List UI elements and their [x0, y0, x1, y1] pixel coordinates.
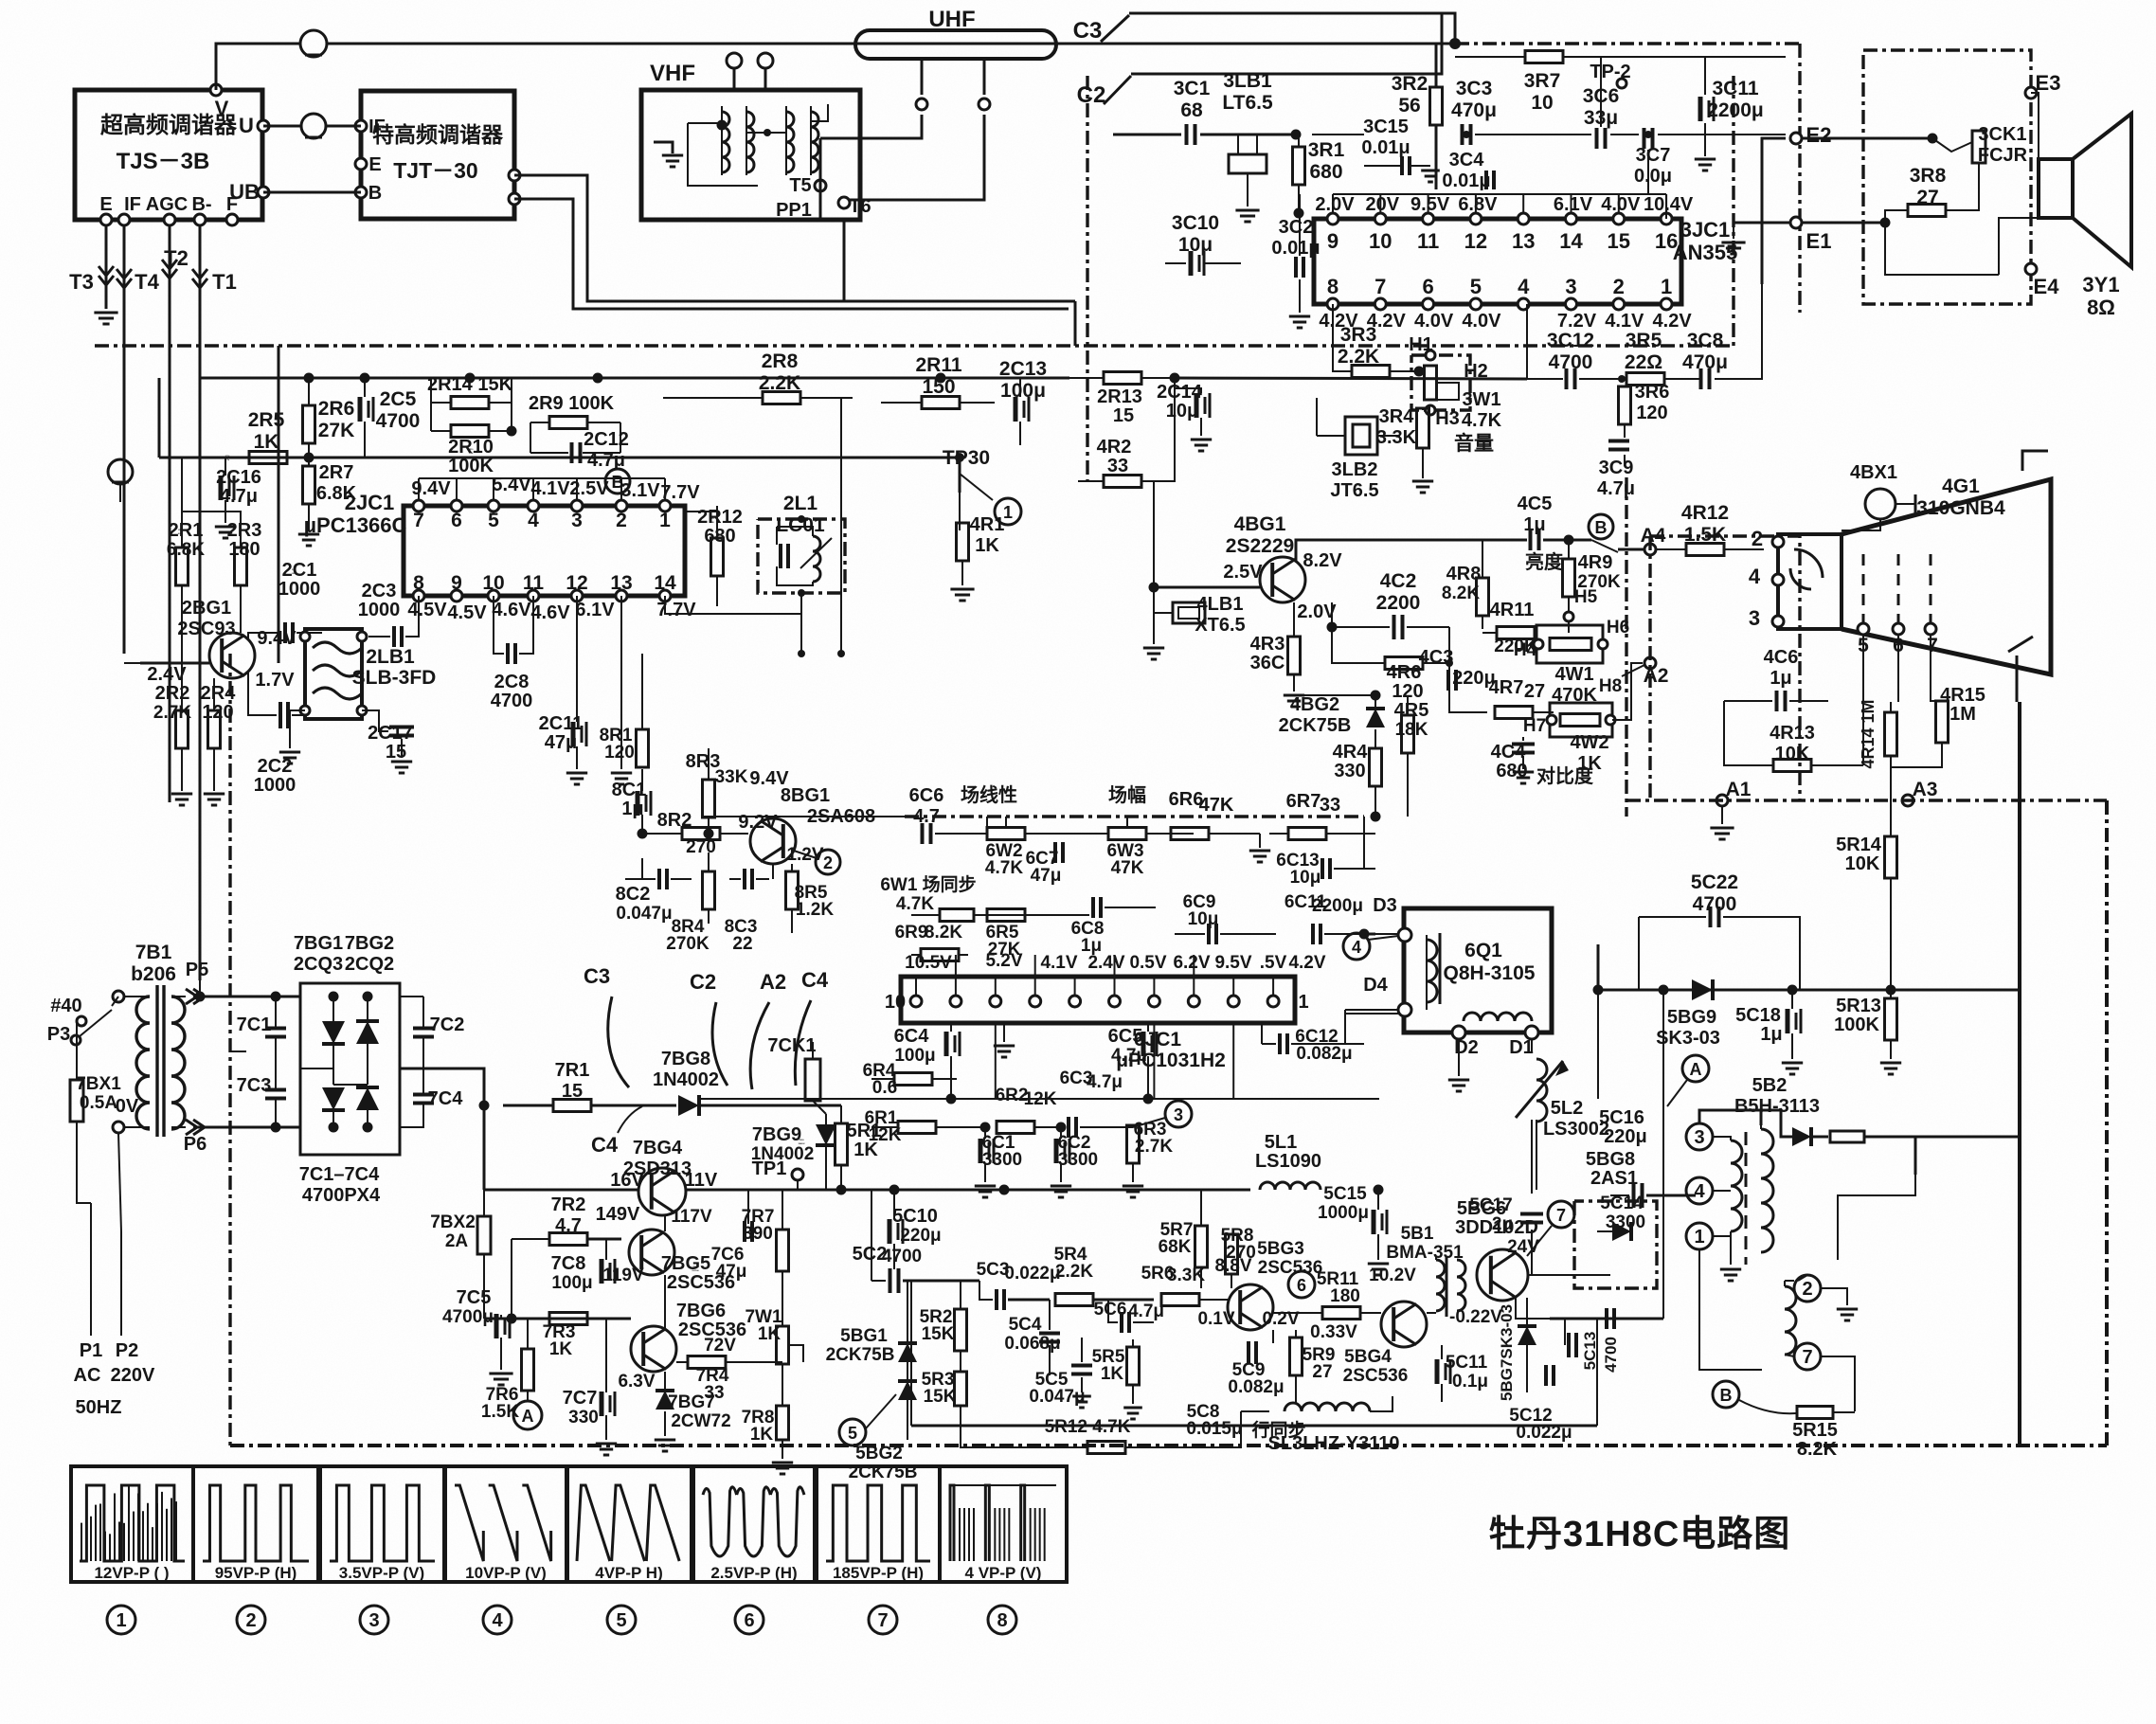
svg-text:2.5V: 2.5V [1223, 562, 1263, 583]
svg-text:5C11: 5C11 [1446, 1353, 1488, 1373]
svg-text:4R6: 4R6 [1387, 662, 1422, 683]
svg-text:3C15: 3C15 [1363, 117, 1409, 137]
svg-text:4700: 4700 [491, 691, 533, 711]
svg-text:6: 6 [1422, 275, 1433, 298]
svg-text:4: 4 [1694, 1181, 1705, 1202]
svg-text:2C3: 2C3 [362, 581, 397, 602]
resistor 6R6 [1171, 828, 1209, 840]
svg-text:3Y1: 3Y1 [2082, 273, 2119, 296]
resistor 4R6 [1385, 657, 1423, 670]
fuse 7BX1 [70, 1080, 83, 1122]
capacitor 5C6 [1120, 1312, 1123, 1333]
svg-text:2L1: 2L1 [783, 493, 818, 514]
svg-text:3C8: 3C8 [1687, 330, 1724, 351]
svg-text:5BG1: 5BG1 [840, 1326, 888, 1346]
node E2 [1790, 133, 1802, 144]
svg-text:特高频调谐器: 特高频调谐器 [372, 122, 504, 147]
resistor 2R3 [235, 548, 247, 585]
boundary dash main horizontal y365 [95, 344, 1734, 347]
svg-text:V: V [215, 97, 229, 120]
svg-text:2C14: 2C14 [1157, 382, 1203, 403]
svg-text:D3: D3 [1373, 895, 1397, 916]
capacitor 3C10 [1189, 251, 1194, 276]
svg-text:8.2K: 8.2K [925, 923, 962, 943]
svg-text:1K: 1K [750, 1425, 774, 1445]
capacitor 5C10 [888, 1219, 892, 1244]
svg-text:4.7μ: 4.7μ [1597, 478, 1635, 499]
svg-text:2: 2 [1802, 1279, 1812, 1300]
crystal 3LB2 [1345, 417, 1377, 455]
svg-text:D1: D1 [1509, 1037, 1534, 1058]
resistor 5R12 [1087, 1442, 1125, 1454]
terminal A1 [1716, 795, 1728, 806]
svg-text:1000: 1000 [254, 775, 296, 796]
VHF transformer coil 2 [786, 112, 794, 172]
svg-text:4LB1: 4LB1 [1197, 594, 1244, 615]
svg-text:7C2: 7C2 [430, 1015, 465, 1035]
fuse 7BX2 [477, 1216, 491, 1254]
pin 2 of 3JC1 bottom [1613, 298, 1625, 310]
svg-text:330: 330 [1334, 761, 1365, 781]
svg-text:1N4002: 1N4002 [653, 1069, 719, 1090]
svg-text:2C17: 2C17 [368, 723, 413, 744]
waveform box 3 3.5VP-P [320, 1466, 444, 1582]
circle node B [1713, 1381, 1739, 1408]
svg-text:2C1: 2C1 [282, 560, 317, 581]
resistor 7R1 [553, 1100, 591, 1112]
svg-text:0.068μ: 0.068μ [1004, 1334, 1060, 1354]
svg-text:4C3: 4C3 [1419, 647, 1454, 668]
capacitor 2C17 [389, 726, 414, 729]
svg-text:2CK75B: 2CK75B [826, 1345, 895, 1365]
capacitor 3C11 [1698, 97, 1703, 121]
waveform number 5 [607, 1606, 636, 1634]
svg-text:15: 15 [386, 742, 406, 763]
capacitor 5C22 [1709, 907, 1713, 927]
capacitor 6C11 [1311, 924, 1315, 944]
VHF transformer coil 1 [722, 112, 729, 172]
capacitor 2C12 [570, 442, 574, 463]
svg-text:5R15: 5R15 [1792, 1420, 1838, 1441]
svg-text:b206: b206 [131, 963, 176, 985]
svg-text:2.5V: 2.5V [569, 478, 609, 499]
svg-text:14: 14 [1559, 229, 1583, 253]
svg-text:47μ: 47μ [1031, 866, 1062, 886]
svg-text:27K: 27K [318, 420, 355, 441]
speaker 3Y1 [2039, 159, 2073, 218]
transformer 6Q1 Q8H-3105 [1404, 908, 1552, 1033]
svg-text:6.8V: 6.8V [1458, 194, 1498, 215]
capacitor 6C2 [1054, 1139, 1059, 1163]
svg-text:27: 27 [1312, 1362, 1332, 1382]
pin 14 of 3JC1 [1566, 213, 1577, 224]
svg-text:4.2V: 4.2V [1288, 953, 1325, 973]
capacitor 4C5 [1529, 530, 1533, 550]
pin 16 of 3JC1 [1661, 213, 1672, 224]
boundary dash vertical x243 [228, 654, 231, 1446]
svg-text:0V: 0V [116, 1096, 139, 1117]
pin 8 of 2JC1 bottom [413, 590, 424, 602]
resistor 2R4 [208, 710, 221, 748]
svg-text:3JC1: 3JC1 [1680, 218, 1731, 242]
svg-text:5C6: 5C6 [1094, 1300, 1127, 1320]
svg-text:5: 5 [488, 510, 499, 531]
svg-text:3C9: 3C9 [1599, 458, 1634, 478]
wire 3JC1 pin16 to E [1665, 194, 1667, 219]
resistor 2R5 [249, 452, 287, 464]
svg-text:2200μ: 2200μ [1312, 896, 1363, 916]
svg-text:100μ: 100μ [551, 1273, 592, 1293]
CRT socket pins 5 6 7 [1858, 623, 1869, 635]
pin AGC [164, 214, 175, 225]
resistor 7R4 [688, 1356, 726, 1369]
svg-text:10.5V: 10.5V [905, 953, 952, 973]
resistor 6R5 [987, 909, 1025, 922]
svg-text:8.2K: 8.2K [1797, 1439, 1838, 1460]
svg-text:2C13: 2C13 [999, 358, 1047, 380]
svg-text:AN355: AN355 [1673, 241, 1737, 264]
svg-text:4R12: 4R12 [1681, 502, 1729, 524]
resistor 3R7 [1525, 51, 1563, 63]
svg-text:0.082μ: 0.082μ [1296, 1044, 1352, 1064]
svg-text:4R5: 4R5 [1394, 700, 1429, 721]
terminal TJT-30 out2 [509, 193, 520, 205]
svg-text:470μ: 470μ [1682, 351, 1728, 373]
coil 5L2 [1536, 1059, 1547, 1122]
pin B- [194, 214, 206, 225]
svg-text:E2: E2 [1806, 123, 1832, 147]
capacitor 6C5 [1141, 1032, 1146, 1056]
capacitor 2C13 [1014, 397, 1018, 422]
capacitor 3C4 [1484, 171, 1488, 189]
terminal A4 [1644, 544, 1656, 555]
svg-text:BMA-351: BMA-351 [1386, 1243, 1464, 1263]
svg-text:11V: 11V [685, 1170, 718, 1191]
svg-text:1.7V: 1.7V [255, 670, 295, 691]
6JC1 pin stubs [915, 977, 917, 996]
pin 9 of 3JC1 [1327, 213, 1339, 224]
svg-text:4.6V: 4.6V [530, 602, 570, 623]
svg-text:PP1: PP1 [776, 200, 812, 221]
svg-text:B: B [1595, 518, 1608, 537]
wire 4BG1 collector [1296, 540, 1527, 561]
svg-text:1K: 1K [975, 535, 999, 556]
svg-text:JT6.5: JT6.5 [1330, 480, 1378, 501]
svg-text:330: 330 [568, 1408, 599, 1428]
svg-text:180: 180 [1330, 1286, 1360, 1306]
ground D2 [1458, 1039, 1460, 1076]
resistor 7R2 [549, 1233, 587, 1246]
resistor 4R2 [1104, 476, 1141, 488]
svg-text:5B1: 5B1 [1401, 1224, 1434, 1244]
svg-text:4: 4 [1518, 275, 1530, 298]
svg-text:8: 8 [1327, 275, 1339, 298]
capacitor 3C3 [1461, 124, 1464, 145]
svg-text:4.7: 4.7 [555, 1215, 582, 1236]
svg-text:1μ: 1μ [621, 799, 643, 819]
svg-text:2: 2 [1752, 527, 1763, 550]
capacitor 7C5 [494, 1314, 499, 1338]
svg-text:2.4V: 2.4V [147, 664, 187, 685]
pin 6 of 3JC1 bottom [1423, 298, 1434, 310]
pin 2 of 2JC1 [616, 500, 627, 512]
svg-text:2SC536: 2SC536 [1343, 1366, 1409, 1386]
capacitor 4C6 [1775, 691, 1779, 711]
svg-text:7B1: 7B1 [135, 942, 172, 963]
svg-text:5: 5 [616, 1610, 626, 1631]
CRT anode mark [2022, 451, 2048, 471]
waveform box 7 185VP-P [817, 1466, 940, 1582]
svg-text:3300: 3300 [982, 1150, 1022, 1170]
svg-text:120: 120 [1636, 403, 1667, 423]
svg-text:20V: 20V [1366, 194, 1400, 215]
svg-text:22Ω: 22Ω [1625, 351, 1662, 373]
svg-text:2AS1: 2AS1 [1590, 1168, 1638, 1189]
resistor 3R6 [1619, 386, 1631, 424]
wire E2 to box [1802, 137, 1932, 140]
svg-text:0.047μ: 0.047μ [616, 904, 672, 924]
wire IF down [123, 225, 126, 654]
terminal A2 [1644, 657, 1656, 669]
svg-text:3: 3 [571, 510, 583, 531]
waveform number 7 [869, 1606, 897, 1634]
svg-text:4700: 4700 [1693, 893, 1737, 915]
svg-text:AC: AC [74, 1365, 101, 1386]
svg-text:7C7: 7C7 [563, 1388, 598, 1409]
svg-text:3C1: 3C1 [1174, 78, 1211, 99]
pin 8 of 3JC1 bottom [1327, 298, 1339, 310]
pot 3W1 volume [1411, 355, 1470, 410]
dash box 5BG8 [1574, 1201, 1657, 1288]
pin U [258, 120, 269, 132]
svg-text:3R8: 3R8 [1910, 165, 1947, 187]
svg-text:4700: 4700 [376, 410, 421, 432]
svg-text:8C1: 8C1 [612, 780, 647, 800]
svg-text:U: U [239, 114, 254, 137]
antenna arrow T3 [99, 266, 114, 276]
main B+ rail [484, 1189, 638, 1192]
pin 1 of 2JC1 [659, 500, 671, 512]
resistor 7R6 [522, 1349, 534, 1391]
svg-text:1.5K: 1.5K [1684, 524, 1726, 546]
boundary dash top right [1455, 42, 1800, 45]
svg-text:47K: 47K [1199, 795, 1234, 816]
block VHF tuner box [641, 90, 860, 220]
pin V [210, 84, 222, 96]
svg-text:LS1090: LS1090 [1255, 1151, 1321, 1172]
svg-text:0.1μ: 0.1μ [1452, 1372, 1488, 1392]
wire U-B link [263, 191, 361, 194]
svg-text:100K: 100K [1834, 1015, 1879, 1035]
capacitor 5C16 [1632, 1183, 1636, 1208]
flyback pin 2 [1794, 1275, 1821, 1302]
pin B of TJT-30 [355, 187, 367, 198]
svg-text:1: 1 [116, 1610, 126, 1631]
svg-text:3R1: 3R1 [1308, 139, 1345, 161]
svg-text:0.01μ: 0.01μ [1271, 238, 1320, 259]
svg-text:SLB-3FD: SLB-3FD [352, 667, 437, 689]
svg-text:1.2K: 1.2K [796, 900, 834, 920]
circle node A2top [1682, 1055, 1709, 1082]
svg-text:3LB2: 3LB2 [1332, 459, 1378, 480]
terminal TJT-30 out1 [509, 170, 520, 181]
svg-text:2JC1: 2JC1 [345, 491, 395, 514]
svg-text:15K: 15K [924, 1387, 957, 1407]
node E4 [2025, 263, 2037, 275]
wire 5BG6 emitter [1516, 1298, 1550, 1319]
svg-text:6Q1: 6Q1 [1464, 940, 1502, 961]
svg-text:14: 14 [654, 572, 676, 594]
svg-text:10: 10 [885, 992, 906, 1013]
pin F [226, 214, 238, 225]
resistor 5R3 [955, 1372, 967, 1406]
circle node A [513, 1401, 542, 1429]
circle B node 4 [1589, 514, 1613, 539]
svg-text:4R1: 4R1 [970, 514, 1005, 535]
pin 7 of 2JC1 [413, 500, 424, 512]
resistor 2R12 [711, 538, 724, 576]
svg-text:6: 6 [451, 510, 462, 531]
transformer 7B1 secondary [171, 997, 185, 1129]
svg-text:F: F [226, 194, 238, 215]
svg-text:4.5V: 4.5V [407, 600, 447, 620]
svg-text:0.0μ: 0.0μ [1634, 166, 1672, 187]
filter 2LB1 SLB-3FD [305, 629, 362, 719]
svg-text:3C3: 3C3 [1456, 78, 1493, 99]
circle node 5 [839, 1419, 866, 1446]
capacitor 4C3 [1446, 670, 1450, 691]
wire y1392 [484, 1318, 631, 1320]
svg-text:IF: IF [124, 194, 141, 215]
svg-text:5: 5 [848, 1424, 857, 1443]
svg-text:7BG6: 7BG6 [676, 1301, 726, 1321]
capacitor 8C2 [657, 869, 661, 889]
svg-text:TJT－30: TJT－30 [393, 158, 477, 183]
svg-text:4: 4 [1352, 938, 1361, 957]
svg-text:220V: 220V [111, 1365, 155, 1386]
svg-text:P3: P3 [47, 1024, 70, 1045]
wire x1756 down [1662, 990, 1664, 1194]
svg-text:5C14: 5C14 [1600, 1194, 1644, 1213]
wire 5BG4 to 5B1 [1427, 1312, 1436, 1314]
svg-text:场线性: 场线性 [961, 783, 1017, 806]
block tuner TJS-3B [75, 90, 262, 220]
waveform number 2 [237, 1606, 265, 1634]
svg-text:2200μ: 2200μ [1707, 99, 1764, 121]
svg-text:B: B [1720, 1386, 1733, 1405]
svg-text:C3: C3 [584, 964, 610, 988]
pin 3 of 2JC1 [571, 500, 583, 512]
svg-text:2C5: 2C5 [380, 388, 417, 410]
svg-text:H8: H8 [1599, 676, 1622, 696]
resistor 4R14 [1885, 712, 1897, 756]
svg-text:2: 2 [823, 853, 833, 872]
svg-text:2.0V: 2.0V [1297, 602, 1337, 622]
capacitor 7C4 [413, 1093, 434, 1097]
svg-text:4.0V: 4.0V [1601, 194, 1641, 215]
svg-text:C4: C4 [801, 968, 829, 992]
capacitor 5C14 [1605, 1308, 1608, 1329]
svg-text:220μ: 220μ [1604, 1126, 1647, 1147]
bridge diode 3 [322, 1087, 345, 1110]
svg-text:2A: 2A [445, 1231, 469, 1251]
CRT funnel 4G1 [1842, 479, 2051, 674]
wire right border heavy [2018, 702, 2021, 1446]
svg-text:8: 8 [997, 1610, 1007, 1631]
svg-text:11: 11 [523, 572, 545, 594]
resistor 4R11 [1497, 627, 1535, 639]
capacitor 7C7 [600, 1392, 604, 1416]
svg-text:0.6: 0.6 [872, 1078, 897, 1098]
svg-text:1: 1 [1298, 992, 1308, 1013]
svg-text:4.1V: 4.1V [1605, 311, 1644, 332]
svg-text:2CK75B: 2CK75B [1279, 715, 1352, 736]
capacitor 5C4 [1039, 1332, 1060, 1336]
svg-text:100μ: 100μ [1000, 380, 1046, 402]
wire 3JC1 pin stubs top [1332, 194, 1334, 213]
svg-text:2: 2 [616, 510, 627, 531]
flyback core [1745, 1132, 1748, 1265]
svg-text:E4: E4 [2034, 275, 2060, 298]
svg-text:T5: T5 [789, 175, 811, 196]
svg-text:2R7: 2R7 [319, 462, 354, 483]
svg-text:7BX2: 7BX2 [430, 1212, 476, 1232]
svg-text:4700: 4700 [1602, 1337, 1620, 1373]
resistor 2R11 [922, 397, 960, 409]
svg-text:2R11: 2R11 [915, 354, 961, 376]
svg-text:T2: T2 [164, 246, 189, 270]
transistor 7BG6 [631, 1326, 676, 1372]
IC 6JC1 uPC1031H2 [901, 977, 1295, 1023]
resistor 7R3 [549, 1313, 587, 1325]
pin 13 of 2JC1 bottom [616, 590, 627, 602]
wire 24V rail [1527, 1274, 1610, 1276]
resistor 2R1 [176, 548, 189, 585]
svg-text:5BG9: 5BG9 [1667, 1007, 1716, 1028]
capacitor 2C2 [278, 702, 282, 728]
capacitor 7C1 [265, 1027, 286, 1031]
svg-text:5C15: 5C15 [1323, 1184, 1367, 1204]
resistor 3R2 [1430, 87, 1443, 125]
capacitor 3C15 [1400, 156, 1404, 175]
wire 2BG1 base [140, 662, 209, 665]
svg-text:5BG4: 5BG4 [1344, 1347, 1392, 1367]
svg-text:7: 7 [1374, 275, 1386, 298]
svg-text:4.0V: 4.0V [1462, 311, 1501, 332]
wire y400 link [1175, 378, 1527, 379]
svg-text:7C4: 7C4 [428, 1088, 464, 1109]
VHF wiring [688, 122, 722, 124]
svg-text:AGC: AGC [146, 194, 188, 215]
wire 2JC1 top stubs rail [419, 477, 665, 479]
svg-text:7: 7 [1802, 1347, 1812, 1368]
svg-text:2R8: 2R8 [762, 350, 799, 372]
svg-text:4R14 1M: 4R14 1M [1859, 699, 1878, 768]
flyback pin 4 [1686, 1177, 1713, 1204]
svg-text:9: 9 [451, 572, 462, 594]
6Q1 vertical winding [1427, 940, 1437, 1002]
svg-text:4.7K: 4.7K [896, 894, 934, 914]
wire 7BG4-7BG5 [664, 1216, 666, 1231]
svg-text:3LB1: 3LB1 [1223, 70, 1272, 92]
svg-text:3R4: 3R4 [1379, 406, 1415, 427]
svg-text:4.6V: 4.6V [492, 600, 531, 620]
resistor 8R1 [641, 654, 643, 729]
node E3 [2025, 87, 2037, 99]
svg-text:7C3: 7C3 [237, 1075, 272, 1096]
circle node 4b [1343, 933, 1370, 960]
capacitor 2C5 [358, 397, 363, 422]
